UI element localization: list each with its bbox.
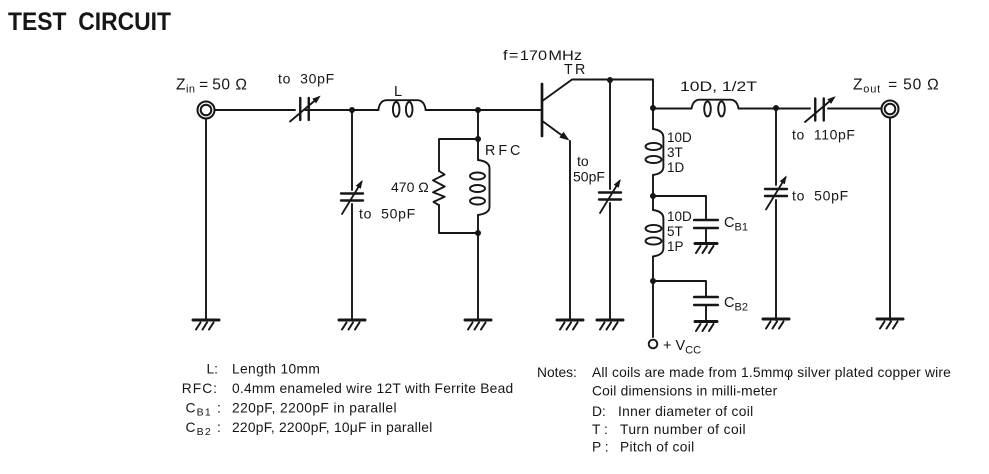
svg-text:5T: 5T [667, 224, 683, 239]
svg-text:f = 170 MHz: f = 170 MHz [503, 47, 582, 63]
svg-text:470 Ω: 470 Ω [391, 179, 429, 195]
svg-text:Zin = 50 Ω: Zin = 50 Ω [176, 77, 247, 96]
svg-text:to 30pF: to 30pF [278, 71, 335, 87]
svg-text:RFC:: RFC: [182, 381, 218, 396]
svg-text:Pitch of coil: Pitch of coil [620, 440, 694, 455]
svg-text:Zout = 50 Ω: Zout = 50 Ω [853, 77, 939, 96]
svg-text:RFC: RFC [485, 143, 523, 159]
svg-text:CB2 :: CB2 : [186, 420, 223, 438]
svg-text:10D: 10D [667, 130, 692, 145]
svg-text:T :: T : [592, 422, 608, 437]
svg-text:L: L [394, 84, 402, 100]
svg-text:Inner diameter of coil: Inner diameter of coil [618, 404, 753, 419]
svg-text:D:: D: [592, 404, 606, 419]
svg-text:+ VCC: + VCC [663, 338, 701, 357]
svg-text:Length 10mm: Length 10mm [232, 362, 320, 377]
svg-text:CB2: CB2 [724, 295, 748, 314]
svg-text:220pF, 2200pF in parallel: 220pF, 2200pF in parallel [232, 401, 397, 416]
svg-text:10D: 10D [667, 209, 692, 224]
svg-text:10D, 1/2T: 10D, 1/2T [680, 78, 758, 94]
svg-text:to 50pF: to 50pF [792, 188, 849, 204]
svg-text:L:: L: [206, 362, 218, 377]
svg-text:3T: 3T [667, 145, 683, 160]
svg-text:P :: P : [592, 440, 609, 455]
svg-text:Turn number of coil: Turn number of coil [620, 422, 746, 437]
svg-text:220pF, 2200pF, 10μF in paralle: 220pF, 2200pF, 10μF in parallel [232, 420, 433, 435]
svg-text:TEST CIRCUIT: TEST CIRCUIT [8, 8, 171, 36]
svg-text:Notes:: Notes: [537, 365, 577, 380]
svg-text:to: to [577, 153, 589, 169]
svg-text:All coils are made from 1.5mmφ: All coils are made from 1.5mmφ silver pl… [592, 365, 951, 380]
svg-text:Coil dimensions in milli-meter: Coil dimensions in milli-meter [592, 384, 778, 399]
svg-text:50pF: 50pF [573, 169, 605, 185]
svg-text:1P: 1P [667, 239, 684, 254]
svg-text:CB1 :: CB1 : [186, 401, 223, 419]
svg-text:to 110pF: to 110pF [792, 127, 856, 143]
svg-text:to 50pF: to 50pF [359, 206, 416, 222]
svg-text:TR: TR [564, 62, 588, 78]
svg-text:CB1: CB1 [724, 215, 748, 234]
svg-text:1D: 1D [667, 160, 685, 175]
svg-text:0.4mm enameled wire 12T with F: 0.4mm enameled wire 12T with Ferrite Bea… [232, 381, 513, 396]
